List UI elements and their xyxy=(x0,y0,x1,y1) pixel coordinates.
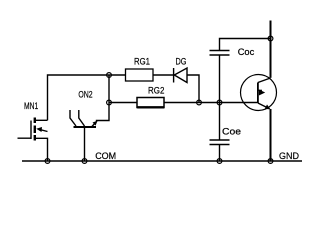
label RG2 xyxy=(148,85,164,96)
label RG1 xyxy=(134,56,150,67)
emitter rail bottom xyxy=(270,109,272,161)
label MN1 xyxy=(24,101,38,112)
svg-text:Coc: Coc xyxy=(238,47,255,58)
MOSFET MN1 source connection xyxy=(36,138,48,161)
capacitor Coc top wire to rail xyxy=(220,39,271,51)
junction dot cap column on gate row xyxy=(217,100,222,105)
junction dot Coc top at rail xyxy=(268,36,273,41)
phototransistor ON2 base lead down to COM xyxy=(84,127,86,161)
junction dot emitter rail at ground xyxy=(268,159,273,164)
phototransistor ON2 light arrow 1 xyxy=(70,110,76,126)
IGBT Q1 middle arrow xyxy=(259,90,266,96)
label GND xyxy=(279,151,299,162)
svg-text:RG1: RG1 xyxy=(134,56,150,67)
svg-text:GND: GND xyxy=(279,151,299,162)
capacitor Coe bottom lead to ground rail xyxy=(219,145,221,162)
IGBT Q1 circle xyxy=(241,75,277,111)
svg-text:Coe: Coe xyxy=(222,126,241,137)
label DG xyxy=(176,56,187,67)
label COM xyxy=(95,151,116,162)
wire junction column between top wire and gate wire xyxy=(108,75,110,103)
IGBT Q1 collector diagonal xyxy=(258,78,271,83)
junction dot top wire node xyxy=(107,73,112,78)
capacitor Coe plates xyxy=(210,140,230,145)
phototransistor ON2 emitter with arrow and wire to gate node xyxy=(92,103,110,128)
wire gate row: node to RG2 xyxy=(109,102,137,104)
collector rail top xyxy=(270,21,272,78)
MOSFET MN1 drain connection xyxy=(36,119,48,121)
resistor RG2 xyxy=(137,98,164,108)
capacitor Coe top lead from gate row xyxy=(219,103,221,141)
capacitor Coc bottom lead to gate row xyxy=(219,55,221,103)
wire from diode DG to corner and down to gate node xyxy=(187,75,199,103)
label Coc xyxy=(238,47,255,58)
IGBT Q1 gate bar xyxy=(257,83,259,104)
MOSFET MN1 gate lead xyxy=(18,121,32,140)
bottom COM/GND rail xyxy=(22,160,302,162)
svg-text:RG2: RG2 xyxy=(148,85,164,96)
MOSFET MN1 channel bar segments xyxy=(34,118,36,141)
resistor RG1 xyxy=(126,69,154,81)
MOSFET MN1 body arrow xyxy=(36,127,47,132)
junction dot ON2 at rail xyxy=(82,159,87,164)
label Coe xyxy=(222,126,241,137)
wire gate row: RG2 to IGBT gate xyxy=(164,102,258,104)
svg-text:ON2: ON2 xyxy=(78,90,92,101)
diode DG (cathode bar left, triangle pointing left) xyxy=(174,68,187,83)
phototransistor ON2 light arrow 2 xyxy=(79,110,85,126)
IGBT Q1 emitter diagonal with arrowhead xyxy=(258,103,271,109)
junction dot MN1 source at rail xyxy=(45,159,50,164)
svg-text:COM: COM xyxy=(95,151,116,162)
svg-text:MN1: MN1 xyxy=(24,101,38,112)
wire top horizontal from left corner to RG1 xyxy=(48,75,126,120)
junction dot diode corner on gate row xyxy=(197,100,202,105)
svg-text:DG: DG xyxy=(176,56,187,67)
phototransistor ON2 body bar xyxy=(74,126,97,128)
label ON2 xyxy=(78,90,92,101)
junction dot gate node xyxy=(107,100,112,105)
wire top from RG1 to diode DG xyxy=(153,74,174,76)
capacitor Coc plates xyxy=(210,51,230,56)
junction dot Coe at rail xyxy=(217,159,222,164)
